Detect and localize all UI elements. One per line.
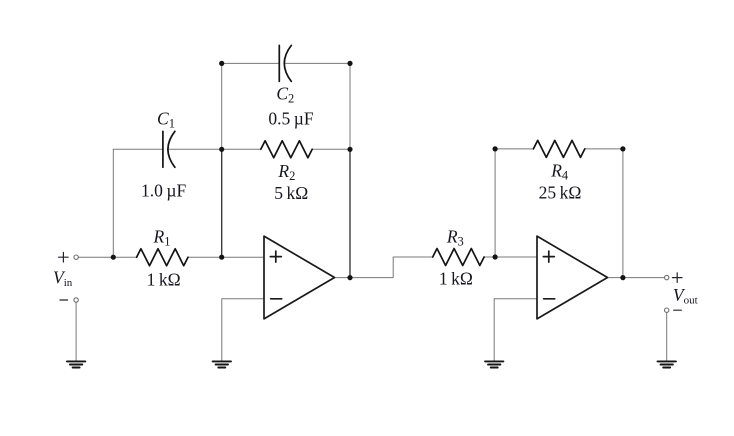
value 1 kOhm (R3) <box>439 269 473 289</box>
node C junction dot (R3/U2+) <box>493 254 498 259</box>
wire right vertical to U1 output node <box>349 149 351 277</box>
wire R2 left lead <box>222 148 261 150</box>
minus sign Vin <box>60 299 68 301</box>
svg-text:1.0 µF: 1.0 µF <box>141 181 186 201</box>
resistor R4 <box>533 140 584 157</box>
svg-text:5 kΩ: 5 kΩ <box>274 183 308 203</box>
wire R2 right lead <box>312 148 350 150</box>
junction dot R4 left <box>493 146 498 151</box>
wire left vertical node B column lower <box>221 149 223 257</box>
wire R4 right vertical to U2 output node <box>622 149 624 278</box>
label C1 <box>157 109 175 131</box>
wire Vout- terminal to ground <box>666 312 668 361</box>
junction dot C1/R2 <box>219 147 224 152</box>
value 1 kOhm (R1) <box>147 270 181 290</box>
value 1.0 uF (C1) <box>141 181 186 201</box>
wire Vin+ to R1 left lead <box>78 256 136 258</box>
svg-text:1 kΩ: 1 kΩ <box>147 270 181 290</box>
svg-text:25 kΩ: 25 kΩ <box>539 182 582 202</box>
junction dot top-left C2 <box>219 61 224 66</box>
capacitor C1 <box>163 131 175 167</box>
junction dot top-right C2 <box>347 61 352 66</box>
wire R1 right lead to op-amp U1 + input <box>188 256 264 258</box>
wire right vertical upper <box>349 63 351 149</box>
terminal Vin+ <box>74 255 78 259</box>
label R2 <box>277 161 295 183</box>
wire Vin- terminal to ground <box>75 302 77 361</box>
wire U1 inverting input to ground <box>222 299 264 361</box>
resistor R1 <box>137 249 188 266</box>
value 0.5 uF (C2) <box>268 108 313 128</box>
terminal Vout+ <box>665 275 669 279</box>
wire U2 inverting input to ground <box>494 299 537 361</box>
junction dot U1 output <box>347 275 352 280</box>
minus sign Vout <box>674 309 682 311</box>
value 25 kOhm (R4) <box>539 182 582 202</box>
wire U1 output to R3 <box>335 257 433 278</box>
ground (Vout) <box>658 361 676 367</box>
svg-text:1 kΩ: 1 kΩ <box>439 269 473 289</box>
op-amp U2 <box>537 236 608 319</box>
resistor R2 <box>261 141 312 158</box>
terminal Vout- <box>665 308 669 312</box>
wire U2 output to Vout+ terminal <box>608 277 665 279</box>
node B junction dot (R1/U1+) <box>219 255 224 260</box>
label R4 <box>550 161 569 183</box>
wire top rail C2 left lead <box>222 62 280 64</box>
resistor R3 <box>433 249 484 266</box>
junction dot R2 right <box>347 147 352 152</box>
junction dot R4 right <box>620 146 625 151</box>
wire R4 right lead <box>585 148 623 150</box>
label Vin <box>53 268 73 290</box>
wire R3 right lead to op-amp U2 + input <box>484 256 537 258</box>
node A junction dot <box>111 255 116 260</box>
label R3 <box>446 227 464 249</box>
plus sign Vout <box>672 273 682 283</box>
junction dot U2 output <box>620 275 625 280</box>
label Vout <box>673 285 698 307</box>
plus sign Vin <box>59 252 69 262</box>
op-amp U1 <box>264 236 335 319</box>
label R1 <box>153 226 171 248</box>
wire top rail C2 right lead <box>284 62 350 64</box>
wire C1 right lead to node B <box>168 148 222 150</box>
svg-text:0.5 µF: 0.5 µF <box>268 108 313 128</box>
value 5 kOhm (R2) <box>274 183 308 203</box>
wire left vertical node B column upper <box>221 63 223 149</box>
terminal Vin- <box>74 298 78 302</box>
wire node A up to C1 left lead <box>113 149 163 257</box>
wire node C up to R4 left lead <box>495 149 533 257</box>
ground (Vin) <box>67 361 85 367</box>
capacitor C2 <box>279 45 291 81</box>
label C2 <box>276 84 294 106</box>
ground (U2 inverting input) <box>485 361 503 367</box>
ground (U1 inverting input) <box>213 361 231 367</box>
